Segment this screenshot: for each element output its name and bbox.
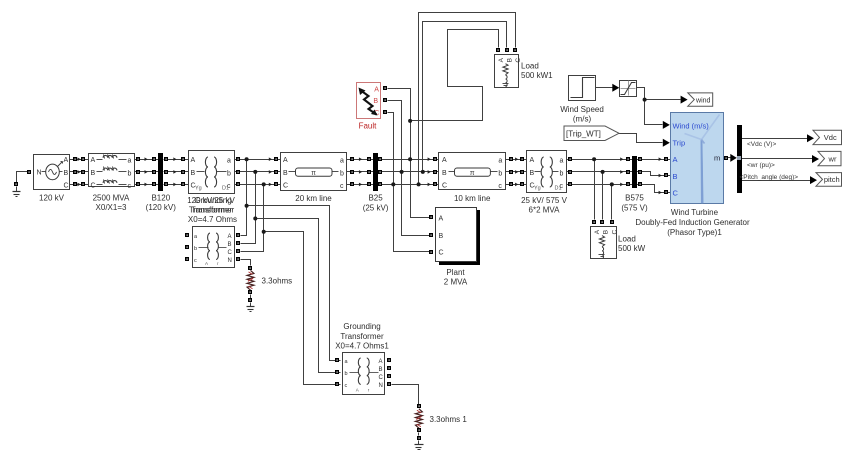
svg-text:c: c	[498, 183, 502, 190]
svg-text:a: a	[340, 158, 344, 165]
svg-text:C: C	[439, 250, 444, 257]
svg-text:B: B	[373, 98, 378, 105]
svg-text:B575: B575	[625, 194, 644, 203]
svg-text:C: C	[228, 250, 233, 256]
svg-text:A: A	[594, 229, 601, 234]
svg-text:C: C	[673, 189, 679, 198]
svg-text:120 kV: 120 kV	[39, 194, 65, 203]
svg-text:20 km line: 20 km line	[295, 194, 332, 203]
svg-text:c: c	[340, 183, 344, 190]
svg-text:Load: Load	[521, 62, 539, 71]
svg-text:Vdc: Vdc	[824, 133, 837, 142]
svg-text:A: A	[379, 359, 383, 365]
svg-text:C: C	[91, 182, 96, 189]
svg-text:a: a	[227, 158, 231, 165]
svg-text:X0=4.7 Ohms: X0=4.7 Ohms	[188, 215, 237, 224]
svg-text:<wr (pu)>: <wr (pu)>	[747, 162, 775, 169]
svg-text:Yg: Yg	[195, 186, 202, 192]
svg-text:B25: B25	[368, 194, 383, 203]
svg-text:B: B	[379, 367, 383, 373]
svg-text:c: c	[345, 383, 348, 389]
svg-text:A: A	[91, 157, 96, 164]
svg-text:B: B	[191, 170, 196, 177]
svg-text:2500 MVA: 2500 MVA	[93, 194, 130, 203]
svg-text:A: A	[283, 157, 288, 164]
svg-text:3.3ohms 1: 3.3ohms 1	[430, 415, 468, 424]
svg-text:X0=4.7 Ohms1: X0=4.7 Ohms1	[335, 342, 389, 351]
svg-text:A: A	[439, 216, 444, 223]
svg-text:(25 kV): (25 kV)	[363, 204, 389, 213]
svg-text:Load: Load	[618, 235, 636, 244]
svg-text:B: B	[442, 170, 447, 177]
svg-text:Doubly-Fed Induction Generator: Doubly-Fed Induction Generator	[635, 218, 750, 227]
svg-text:Fault: Fault	[359, 122, 378, 131]
svg-text:<Pitch_angle (deg)>: <Pitch_angle (deg)>	[740, 174, 799, 181]
svg-text:wr: wr	[828, 154, 837, 163]
svg-text:B: B	[283, 170, 288, 177]
svg-text:a: a	[128, 158, 132, 165]
svg-text:b: b	[340, 170, 344, 177]
svg-text:Transformer: Transformer	[340, 332, 384, 341]
svg-text:A: A	[191, 157, 196, 164]
svg-text:A: A	[498, 57, 505, 62]
svg-text:A: A	[442, 157, 447, 164]
svg-text:c: c	[128, 183, 132, 190]
svg-text:A: A	[530, 157, 535, 164]
svg-text:C: C	[442, 182, 447, 189]
svg-text:6*2 MVA: 6*2 MVA	[529, 206, 561, 215]
svg-text:B: B	[228, 242, 232, 248]
svg-text:C: C	[379, 375, 384, 381]
svg-text:X0/X1=3: X0/X1=3	[96, 203, 127, 212]
svg-text:c: c	[194, 258, 197, 264]
svg-text:Wind Turbine: Wind Turbine	[671, 208, 719, 217]
svg-text:(m/s): (m/s)	[573, 114, 592, 123]
svg-text:b: b	[560, 170, 564, 177]
svg-text:D1: D1	[555, 186, 562, 192]
svg-text:<Vdc (V)>: <Vdc (V)>	[747, 141, 776, 148]
svg-text:A: A	[374, 87, 379, 94]
svg-text:A: A	[64, 157, 69, 164]
svg-text:π: π	[470, 170, 475, 177]
svg-text:10 km line: 10 km line	[454, 194, 491, 203]
svg-text:[Trip_WT]: [Trip_WT]	[566, 129, 601, 138]
svg-text:(120 kV): (120 kV)	[146, 203, 177, 212]
svg-text:B: B	[64, 170, 69, 177]
svg-text:A: A	[356, 388, 359, 393]
svg-text:B120: B120	[151, 194, 170, 203]
svg-text:m: m	[714, 154, 720, 163]
svg-text:C: C	[283, 182, 288, 189]
svg-text:Grounding: Grounding	[343, 322, 380, 331]
svg-text:b: b	[345, 371, 348, 377]
svg-text:b: b	[498, 170, 502, 177]
svg-text:N: N	[379, 383, 383, 389]
svg-text:(575 V): (575 V)	[621, 204, 648, 213]
svg-text:(Phasor Type)1: (Phasor Type)1	[667, 228, 722, 237]
svg-text:2 MVA: 2 MVA	[444, 278, 468, 287]
svg-text:b: b	[128, 170, 132, 177]
svg-text:A: A	[228, 234, 232, 240]
svg-text:B: B	[507, 58, 514, 62]
svg-text:25 kV/ 575 V: 25 kV/ 575 V	[521, 196, 567, 205]
svg-text:π: π	[311, 170, 316, 177]
svg-text:N: N	[228, 258, 232, 264]
svg-text:pitch: pitch	[824, 175, 840, 184]
svg-text:500 kW1: 500 kW1	[521, 71, 553, 80]
svg-text:B: B	[602, 230, 609, 234]
svg-text:N: N	[37, 170, 42, 177]
svg-text:B: B	[91, 170, 96, 177]
svg-text:Transformer: Transformer	[191, 206, 235, 215]
svg-text:wind: wind	[695, 97, 711, 104]
svg-text:Trip: Trip	[673, 139, 686, 148]
svg-text:Wind Speed: Wind Speed	[560, 105, 604, 114]
svg-text:Yg: Yg	[534, 186, 541, 192]
svg-text:a: a	[560, 158, 564, 165]
svg-text:D1: D1	[222, 186, 229, 192]
svg-text:500 kW: 500 kW	[618, 244, 646, 253]
svg-text:Plant: Plant	[446, 268, 465, 277]
svg-text:B: B	[673, 172, 678, 181]
svg-text:b: b	[227, 170, 231, 177]
svg-text:A: A	[673, 155, 678, 164]
svg-text:B: B	[439, 233, 444, 240]
svg-text:b: b	[194, 246, 197, 252]
svg-text:B: B	[530, 170, 535, 177]
svg-text:C: C	[64, 182, 69, 189]
svg-text:a: a	[498, 158, 502, 165]
svg-text:Wind (m/s): Wind (m/s)	[673, 121, 710, 130]
svg-text:Grounding: Grounding	[194, 196, 231, 205]
svg-text:3.3ohms: 3.3ohms	[262, 277, 293, 286]
svg-text:A: A	[205, 261, 208, 266]
